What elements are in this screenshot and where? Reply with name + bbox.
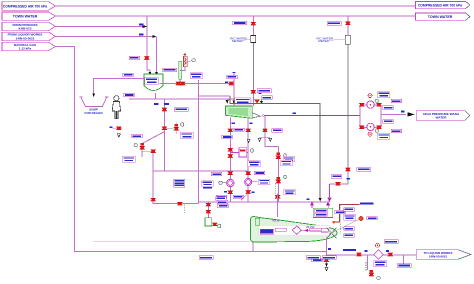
pipe: kiln bottom drop xyxy=(326,238,328,264)
label: bottom left small tag xyxy=(199,256,213,260)
funnel: tank outlet cone xyxy=(252,113,260,118)
svg-text:COMPRESSED AIR 700 kPa: COMPRESSED AIR 700 kPa xyxy=(3,4,47,8)
valve: pilot drop valve A xyxy=(206,203,211,206)
valve: outlet lower valve xyxy=(151,150,156,153)
pipe: kiln feed drop xyxy=(277,193,279,217)
control: dashed signal B xyxy=(274,183,276,200)
label: manifold small tag xyxy=(222,135,233,138)
svg-text:25 kW: 25 kW xyxy=(306,225,315,229)
control: lower header signal dash xyxy=(184,205,186,214)
flag: NATURAL GAS 1.12 kPa (left) xyxy=(2,42,55,50)
label: effluent tank nameplate xyxy=(235,98,251,104)
label: pump2 discharge tag xyxy=(233,195,244,198)
pipe: drop 3 from tank xyxy=(265,116,278,202)
svg-text:KHB-013: KHB-013 xyxy=(19,26,32,30)
valve: pump1 suction valve xyxy=(228,172,233,175)
svg-text:FOR REAGN: FOR REAGN xyxy=(85,111,103,115)
pipe: kiln water drop xyxy=(328,184,331,202)
pipe: town water branch 1 xyxy=(252,16,254,106)
pipe: town water branch 2 xyxy=(347,16,349,184)
pipe: branch 1 metered segment (gray) xyxy=(252,43,254,89)
meter: R/C water meter 1 xyxy=(251,36,256,43)
valve: pump A discharge xyxy=(376,103,381,106)
valve: outlet lower isolation xyxy=(162,127,167,130)
label: diagonal line tag xyxy=(132,134,143,137)
svg-text:TOWN WATER: TOWN WATER xyxy=(428,15,453,19)
pipe: control valve outlet link xyxy=(142,150,153,152)
vessel: flame arrestor element xyxy=(179,61,182,79)
valve: lower header valve xyxy=(177,202,182,205)
valve: liquor line valve B xyxy=(388,253,393,256)
label: R/C WATER METER 1 xyxy=(230,36,251,43)
label: control A tags xyxy=(281,156,295,165)
valve: pilot drop valve B xyxy=(206,210,211,213)
arrow: manifold down arrow B xyxy=(327,202,330,209)
arrow: drain into tank xyxy=(226,100,229,103)
figure: operator silhouette xyxy=(112,96,120,119)
pipe: town water header xyxy=(55,15,415,17)
label: overflow line tag xyxy=(123,73,134,76)
valve: drop3 isolation xyxy=(262,129,282,132)
pipe: faint drain line xyxy=(93,240,250,242)
pipe: drain leg to lower header xyxy=(153,171,198,204)
pipe: compressed air header xyxy=(55,5,415,7)
pipe: burner gas line (dark red) xyxy=(335,204,360,222)
pipe: kiln water line xyxy=(330,183,348,185)
label: R/C WATER METER 2 xyxy=(317,36,346,43)
label: kiln water tag xyxy=(331,175,342,178)
svg-text:1.12 kPa: 1.12 kPa xyxy=(19,47,32,51)
instrument: PI pump A xyxy=(368,92,390,98)
label: 25 suction size tag xyxy=(293,112,296,114)
pipe: kiln left drain xyxy=(252,242,254,251)
svg-text:TOWN WATER: TOWN WATER xyxy=(13,15,38,19)
label: main line 25 tag xyxy=(401,111,404,113)
label: pump1 suction tag xyxy=(211,172,222,175)
label: mix tank nameplate xyxy=(145,78,159,84)
control: TV dashed signal xyxy=(340,205,342,235)
node: suction nozzle xyxy=(262,115,264,117)
label: pump2 size tag xyxy=(250,122,253,124)
label: right small tag xyxy=(397,264,411,268)
pipe: discharge manifold to kiln xyxy=(199,201,329,203)
valve: mix tank water inlet valve xyxy=(144,56,149,59)
label: 50-PL tag xyxy=(262,96,273,99)
pump: slurry pump 2 xyxy=(245,178,252,185)
vessel: kiln feed chute xyxy=(255,218,260,225)
vent: open end tip xyxy=(232,72,235,73)
meter: liquor flowmeter diamond xyxy=(374,250,383,259)
svg-text:METER: METER xyxy=(318,39,329,43)
pipe: overflow line to effluent tank xyxy=(129,98,234,100)
pipe: branch 2 metered segment (gray) xyxy=(347,44,349,166)
internal: burner lance right xyxy=(310,228,322,231)
label: pump1 25 tag xyxy=(224,191,227,193)
pipe: natural gas line down left side xyxy=(55,47,326,252)
valve: effluent tank inlet valve xyxy=(251,89,272,94)
label: 25-CW-0002 stub xyxy=(139,23,144,25)
pipe: small drop right xyxy=(403,255,405,264)
label: lower header 3-line tag xyxy=(174,179,185,187)
pipe: suction manifold xyxy=(153,170,248,172)
label: burner nameplate xyxy=(260,229,274,234)
flag: TO LIQUOR WORKS 14IN-03-0021 xyxy=(416,250,471,259)
arrow: manifold down arrow A xyxy=(310,202,313,209)
valve: pump2 suction valve xyxy=(246,172,251,175)
label: overflow tag B xyxy=(164,103,169,105)
valve: vent valve A xyxy=(176,82,181,85)
label: SUMP FOR REAGENT xyxy=(85,108,103,115)
label: pump1 discharge tag xyxy=(216,195,227,198)
flag: TOWN WATER (right) xyxy=(415,13,470,20)
valve: control valve A xyxy=(276,153,287,159)
instrument: PI above diamond xyxy=(376,240,399,248)
valve: vent valve B xyxy=(180,82,185,85)
valve: pump2 upper isolation xyxy=(246,129,251,132)
label: manifold 25 tag xyxy=(306,198,309,200)
label: pump A line tag xyxy=(383,106,394,109)
flag: TOWN WATER (left) xyxy=(2,12,55,20)
label: strainer tag 2-line xyxy=(248,161,260,167)
meter: R/C water meter 2 xyxy=(345,35,350,44)
label: 25 vent tag xyxy=(225,82,228,84)
label: pump2 25 tag xyxy=(251,191,254,193)
pipe: overflow to sump xyxy=(94,79,144,94)
label: pump2 suction tag xyxy=(254,171,264,174)
sump: open pit xyxy=(79,97,108,106)
valve: kiln feed valve xyxy=(275,195,280,198)
flag: FROM PROCESS KHB-013 (left) xyxy=(2,22,55,30)
label: pump B tag xyxy=(383,120,394,123)
label: FLAME ARRESTOR note xyxy=(163,68,177,72)
pipe: line A elbow to kiln riser (gray) xyxy=(230,96,320,200)
label: control B tags xyxy=(284,189,296,194)
valve: pump1 upper isolation xyxy=(228,129,233,132)
valve: pump2 discharge valve xyxy=(246,190,251,193)
arrow: overflow into tank xyxy=(232,100,235,103)
valve: pump B suction xyxy=(359,126,364,129)
svg-text:COMPRESSED AIR 700 kPa: COMPRESSED AIR 700 kPa xyxy=(418,3,462,7)
pipe: line to liquor works xyxy=(327,254,417,256)
control: dashed signal to control valve xyxy=(365,262,367,272)
valve: branch 2 isolation valve xyxy=(345,22,350,25)
valve: drain stub with vent xyxy=(110,127,123,138)
valve: pump B discharge xyxy=(376,126,381,129)
valve: control valve B xyxy=(276,175,287,183)
valve: outlet isolation valve xyxy=(162,108,167,111)
label: 25 tick after diamond xyxy=(386,250,389,252)
panel: burner management box xyxy=(313,208,333,217)
valve: branch 2 lower valve xyxy=(345,168,371,172)
arrow: water into tank xyxy=(148,72,151,75)
valve: outlet control valve xyxy=(134,143,145,149)
vessel: mix tank 14-TK-001 xyxy=(144,74,163,91)
arrow: pump2 vent arrow xyxy=(247,139,250,142)
label: 25-CW-0004 xyxy=(129,56,140,59)
label: 25 size tag xyxy=(259,93,262,94)
valve: control valve w actuator xyxy=(369,270,380,280)
valve: pilot gas valve xyxy=(212,223,221,228)
svg-text:14IN-03-0021: 14IN-03-0021 xyxy=(429,254,448,258)
vessel: effluent tank xyxy=(226,106,253,118)
vessel: rotary kiln body xyxy=(250,217,337,243)
pump: wash water pump B xyxy=(367,123,379,132)
label: TV tag stack A xyxy=(344,208,355,211)
label: 25-NG text on line xyxy=(360,202,374,204)
strainer: pump manifold strainer xyxy=(228,148,254,158)
internal: nozzle box xyxy=(321,228,328,232)
label: drop tick xyxy=(328,248,331,250)
label: TV tag stack C xyxy=(344,227,355,230)
svg-text:WATER: WATER xyxy=(436,116,448,120)
pipe: town water riser to mix tank xyxy=(147,16,150,72)
flag: COMPRESSED AIR 700 kPa (left) xyxy=(2,2,55,10)
pipe: pilot gas drop xyxy=(207,202,209,218)
pipe: slant connection xyxy=(241,195,247,201)
label: 14-LS-001 xyxy=(124,93,135,96)
pipe: pump 2 line xyxy=(247,118,249,202)
valve: branch 1 isolation valve xyxy=(251,22,256,25)
instrument: PI pump B xyxy=(368,132,390,139)
valve: vent valve C xyxy=(229,82,234,85)
pipe: pump suction header (gray) xyxy=(264,115,360,117)
pump: wash water pump A xyxy=(367,99,379,108)
valve: kiln water valve xyxy=(335,182,340,185)
valve: pump1 discharge valve xyxy=(228,191,233,194)
pipe: from liquor works line xyxy=(55,36,156,72)
instrument: pump1 hand switch xyxy=(219,181,227,184)
label: outlet train 2-line tag xyxy=(180,132,193,138)
label: control valve 2-line tag xyxy=(123,156,135,162)
label: pump B line tag xyxy=(391,129,402,132)
label: pump1 size tag xyxy=(232,122,235,124)
label: under diamond tag xyxy=(374,261,387,267)
arrow: kiln drain to grade xyxy=(325,264,328,271)
label: 14-LW-0001 stub xyxy=(139,33,144,35)
label: TV tag stack B xyxy=(344,214,356,220)
pipe: bypass drop xyxy=(198,171,200,204)
arrow: wash water to flag xyxy=(408,112,415,116)
arrow: liquor line flow arrow xyxy=(152,35,156,38)
pipe: control valve drop xyxy=(367,255,369,271)
internal: burner lance left xyxy=(275,228,286,231)
label: kiln water 25 tick xyxy=(347,178,350,180)
pump: slurry pump 1 xyxy=(227,179,234,186)
arrow: into sump xyxy=(92,93,95,97)
label: right of panel tag xyxy=(335,210,346,213)
label: pump1 nameplate xyxy=(202,181,214,189)
label: liquor line 25 tick xyxy=(343,249,356,251)
label: pump1 drop tag xyxy=(234,128,245,131)
label: 14-XV-001 xyxy=(174,108,188,112)
internal: burner diamond xyxy=(292,226,301,234)
pipe: pump branch loop xyxy=(360,105,406,128)
node: burner connection dot xyxy=(333,221,336,224)
arrow: process line flow arrow xyxy=(143,25,147,28)
pipe: pump 1 line xyxy=(229,118,231,202)
pipe: tank bottom outlet xyxy=(142,93,164,171)
valve: pump A suction xyxy=(359,103,364,106)
nozzle: tank inlet eductor xyxy=(254,100,263,105)
pipe: vent line to effluent tank xyxy=(160,67,234,106)
valve: liquor line valve A xyxy=(356,253,361,256)
valve: drain leg valve xyxy=(151,198,156,201)
valve: bypass control valve xyxy=(164,123,184,135)
panel: gas control box xyxy=(205,218,212,226)
label: pilot tags xyxy=(216,197,229,208)
flag: HIGH PRESSURE WASH WATER xyxy=(416,111,470,121)
crossing: nozzle X lines xyxy=(327,228,337,239)
arrow: riser end arrow xyxy=(319,198,322,201)
label: regulator tag 2-line xyxy=(190,73,202,79)
pipe: lance line + left arrow xyxy=(302,229,322,231)
label: 50-CW-0001 xyxy=(233,21,247,25)
label: below line tags xyxy=(306,256,336,260)
label: pump2 nameplate xyxy=(252,179,270,184)
svg-text:METER: METER xyxy=(232,39,243,43)
internal: kiln tube band xyxy=(259,225,330,235)
arrow: drop3 vent arrows xyxy=(258,137,272,141)
label: 25 tick before diamond xyxy=(364,250,367,252)
label: TV tag stack D xyxy=(344,234,355,237)
pipe: from process line into mix tank riser xyxy=(55,26,144,28)
svg-text:KILN: KILN xyxy=(273,219,280,223)
label: overflow tag A xyxy=(154,103,159,105)
label: pump A tag xyxy=(391,99,402,102)
label: 50-CW-0003 xyxy=(327,22,341,26)
valve: kiln drain valve xyxy=(324,259,329,262)
label: kiln drain tag xyxy=(312,258,326,261)
svg-text:14IN-03-0021: 14IN-03-0021 xyxy=(16,37,35,41)
label: 50-CW mid tag xyxy=(227,75,238,78)
flag: FROM LIQUOR WORKS 14IN-03-0021 (left) xyxy=(2,32,55,41)
flag: COMPRESSED AIR 700 kPa (right) xyxy=(415,1,470,8)
pipe: arrestor drain line xyxy=(199,80,230,171)
vessel: gas regulator pot xyxy=(183,53,195,67)
instrument: PI at kiln discharge xyxy=(329,216,377,234)
